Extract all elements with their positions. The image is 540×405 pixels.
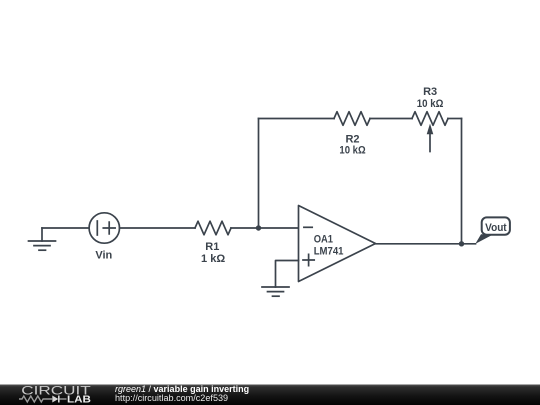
wire feedback top to R2 [259, 118, 335, 120]
voltage source V1 Vin [89, 213, 119, 243]
svg-text:1 kΩ: 1 kΩ [201, 253, 225, 265]
svg-text:Vin: Vin [95, 249, 112, 261]
svg-text:R1: R1 [205, 241, 219, 253]
potentiometer R3 [412, 112, 448, 152]
footer bar [0, 385, 540, 405]
wire R1 to op-amp inverting input [231, 227, 299, 229]
logo resistor zigzag [19, 396, 52, 402]
wire feedback left vertical [258, 119, 260, 229]
op-amp U1 OA1 triangle [299, 206, 376, 282]
svg-text:10 kΩ: 10 kΩ [339, 144, 365, 156]
svg-text:R3: R3 [423, 86, 437, 98]
svg-text:LAB: LAB [67, 394, 91, 405]
ground (input side) [29, 228, 56, 250]
wire op-amp noninverting input [276, 261, 299, 288]
wire output right vertical [461, 119, 463, 244]
logo CircuitLab wordmark [19, 386, 91, 405]
svg-text:http://circuitlab.com/c2ef539: http://circuitlab.com/c2ef539 [115, 393, 228, 403]
wire ground to Vin source [42, 227, 89, 229]
resistor R1 [195, 221, 231, 235]
wire R2 to R3 [370, 118, 412, 120]
svg-text:LM741: LM741 [314, 245, 344, 257]
wire op-amp output [376, 243, 476, 245]
wire R3 to right vertical [448, 118, 462, 120]
svg-text:10 kΩ: 10 kΩ [417, 98, 444, 110]
svg-text:OA1: OA1 [314, 234, 333, 246]
node junction at R1 / feedback [256, 225, 261, 230]
resistor R2 [334, 112, 370, 126]
logo diode [52, 396, 58, 403]
node junction at output / feedback [459, 241, 464, 246]
ground (op-amp + input) [262, 287, 289, 296]
svg-text:Vout: Vout [485, 222, 507, 234]
wire Vin to R1 [120, 227, 196, 229]
node Vout flag [475, 217, 510, 244]
